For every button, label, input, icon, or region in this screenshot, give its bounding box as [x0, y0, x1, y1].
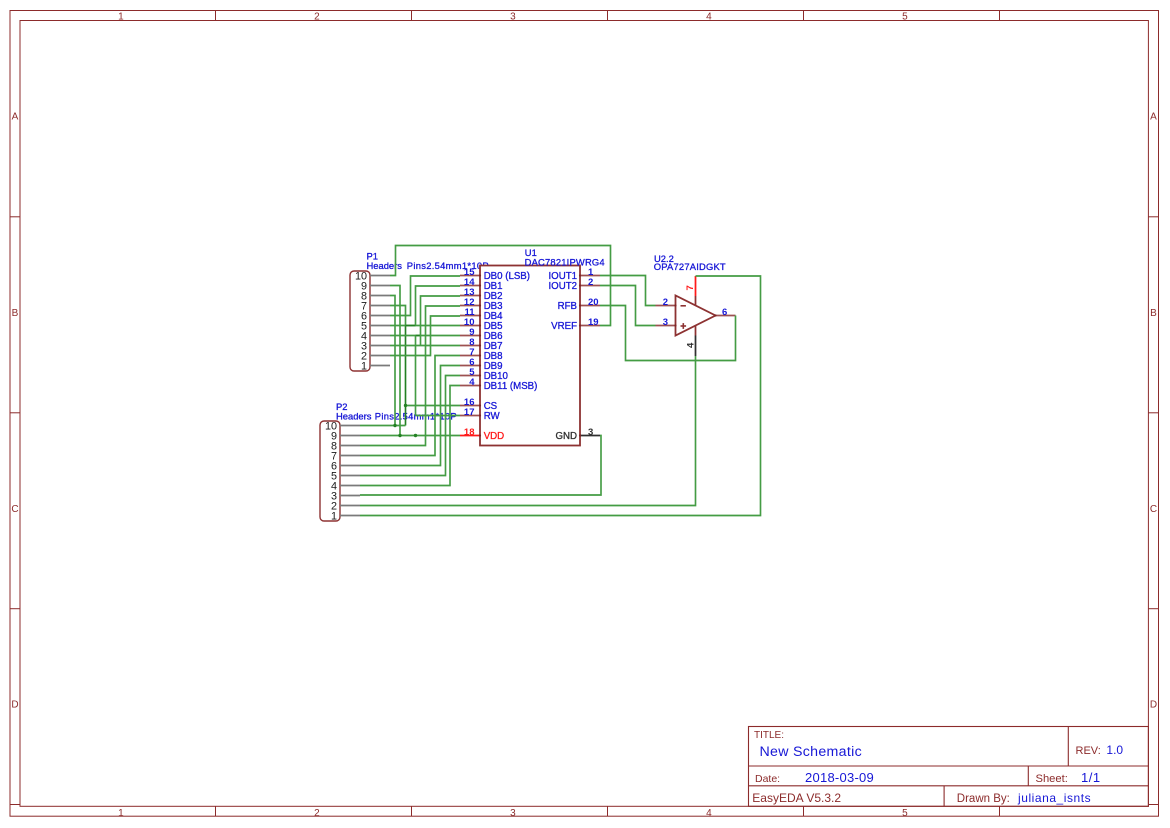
- wire net VREF P1.10 to U1 pin19: [390, 246, 611, 326]
- op-amp pin 4 negative supply: [685, 326, 696, 357]
- svg-text:DB11 (MSB): DB11 (MSB): [484, 381, 538, 392]
- title block REV divider: [1067, 727, 1069, 767]
- svg-text:6: 6: [722, 307, 727, 318]
- op-amp pin 7 positive supply: [685, 276, 696, 306]
- row letters right: [1150, 112, 1157, 711]
- svg-text:7: 7: [685, 285, 696, 290]
- svg-text:Date:: Date:: [755, 773, 780, 785]
- svg-text:REV:: REV:: [1076, 745, 1101, 757]
- U1 pin 3 GND: [555, 427, 600, 442]
- svg-text:Sheet:: Sheet:: [1036, 773, 1068, 785]
- P2 pin 4: [331, 480, 360, 492]
- wire net RW horizontal: [416, 415, 461, 417]
- svg-text:18: 18: [464, 427, 475, 438]
- wire net P1.5 to DB5: [390, 325, 460, 327]
- svg-text:VDD: VDD: [484, 431, 504, 442]
- P1 pin 4: [361, 330, 390, 342]
- P1 pin 7: [361, 300, 390, 312]
- P2 pin 7: [331, 450, 360, 462]
- U1 pin 15 DB0 (LSB): [460, 267, 530, 282]
- U1 pin 10 DB5: [460, 317, 503, 332]
- P1 pin 1: [361, 360, 390, 372]
- column ticks top: [216, 11, 1000, 21]
- op-amp pin 3 non-inverting input: [656, 317, 676, 328]
- svg-text:4: 4: [706, 808, 712, 819]
- svg-text:1: 1: [361, 360, 367, 372]
- wire net P1.4 to DB6: [390, 335, 460, 337]
- P1 pin 8: [361, 290, 390, 302]
- wire net P1.8 column: [390, 296, 395, 426]
- svg-text:2: 2: [588, 277, 593, 288]
- wire net op-amp pin4 supply to P2.2: [360, 356, 696, 506]
- svg-text:19: 19: [588, 317, 599, 328]
- title block outline: [749, 727, 1149, 807]
- svg-text:1: 1: [118, 808, 124, 819]
- svg-text:D: D: [11, 700, 18, 711]
- op-amp U2.2 label: [654, 253, 726, 272]
- svg-text:4: 4: [685, 342, 696, 348]
- U1 pin 7 DB8: [460, 347, 503, 362]
- svg-text:20: 20: [588, 297, 599, 308]
- title block row divider 1: [749, 765, 1149, 767]
- svg-text:3: 3: [588, 427, 593, 438]
- svg-text:GND: GND: [555, 431, 577, 442]
- connector P2 body: [320, 421, 340, 521]
- U1 pin 14 DB1: [460, 277, 503, 292]
- svg-text:1/1: 1/1: [1081, 770, 1101, 785]
- wire net DB3 to P2.8: [360, 306, 460, 446]
- svg-text:3: 3: [510, 808, 516, 819]
- svg-text:IOUT2: IOUT2: [548, 281, 577, 292]
- svg-text:Drawn By:: Drawn By:: [957, 793, 1010, 805]
- op-amp U2.2 triangle: [676, 296, 716, 336]
- svg-text:5: 5: [902, 808, 908, 819]
- svg-text:3: 3: [510, 12, 516, 23]
- P2 pin 3: [331, 490, 360, 502]
- svg-text:2: 2: [314, 808, 320, 819]
- U1 pin 17 RW: [460, 407, 501, 422]
- P1 pin 10: [355, 270, 390, 282]
- svg-text:D: D: [1150, 700, 1157, 711]
- title block DrawnBy divider: [943, 786, 945, 807]
- svg-text:5: 5: [902, 12, 908, 23]
- svg-text:Headers: Headers: [367, 260, 403, 271]
- U1 pin 5 DB10: [460, 367, 509, 382]
- wire net RW column: [415, 336, 417, 416]
- wire net P1.7 to CS column: [390, 306, 406, 326]
- column numbers bottom: [118, 808, 908, 819]
- op-amp pin 6 output: [716, 307, 736, 318]
- wire net P1.9 to VDD rail: [390, 286, 400, 436]
- wire net DB1 branch: [416, 286, 461, 326]
- wire net P1.6 to DB0: [390, 276, 460, 316]
- wire net DB11 to P2.4: [360, 386, 460, 486]
- P2 pin 10: [325, 420, 360, 432]
- svg-text:2: 2: [314, 12, 320, 23]
- svg-text:17: 17: [464, 407, 475, 418]
- svg-text:2: 2: [663, 297, 668, 308]
- svg-text:TITLE:: TITLE:: [754, 730, 784, 741]
- P1 pin 3: [361, 340, 390, 352]
- wire net RFB feedback to pin6: [600, 306, 736, 361]
- wire net DB8 to P2.7: [360, 356, 460, 456]
- op-amp plus input mark: [681, 323, 687, 329]
- wire net op-amp pin7 supply to P2.1: [360, 276, 761, 516]
- title block row divider 2: [749, 785, 1149, 787]
- U1 pin 19 VREF: [551, 317, 600, 332]
- P1 pin 2: [361, 350, 390, 362]
- U1 pin 6 DB9: [460, 357, 503, 372]
- op-amp pin 2 inverting input: [656, 297, 676, 308]
- pin connection dots U1: [479, 274, 581, 436]
- wire net IOUT2 to op-amp pin3: [600, 286, 656, 326]
- row letters left: [11, 112, 18, 711]
- svg-text:1: 1: [331, 510, 337, 522]
- svg-text:RW: RW: [484, 411, 501, 422]
- wire net DB2 branch: [421, 296, 461, 346]
- wire net P2.10 to CS: [360, 425, 406, 427]
- IC U1 body: [480, 266, 580, 446]
- op-amp minus input mark: [681, 305, 686, 307]
- U1 pin 12 DB3: [460, 297, 503, 312]
- U1 pin 2 IOUT2: [548, 277, 600, 292]
- wire net P1.2 to DB4: [390, 316, 460, 356]
- wire overlap DB6 row dark: [416, 335, 422, 337]
- svg-text:A: A: [1150, 112, 1157, 123]
- IC U1 label: [525, 247, 605, 268]
- connector P1 label: [367, 251, 489, 272]
- svg-text:B: B: [1150, 308, 1157, 319]
- svg-text:New Schematic: New Schematic: [760, 744, 862, 760]
- title block Sheet divider: [1027, 766, 1029, 786]
- svg-text:4: 4: [706, 12, 712, 23]
- P1 pin 5: [361, 320, 390, 332]
- svg-text:OPA727AIDGKT: OPA727AIDGKT: [654, 261, 726, 272]
- P2 pin 6: [331, 460, 360, 472]
- P2 pin 1: [331, 510, 360, 522]
- svg-text:4: 4: [469, 377, 475, 388]
- pin connection dots op-amp: [674, 304, 716, 326]
- U1 pin 13 DB2: [460, 287, 503, 302]
- svg-text:EasyEDA V5.3.2: EasyEDA V5.3.2: [752, 791, 841, 805]
- connector P2 label: [336, 401, 457, 422]
- wire net CS horizontal: [406, 405, 461, 407]
- svg-text:B: B: [12, 308, 19, 319]
- svg-text:1.0: 1.0: [1106, 743, 1123, 757]
- wire net VDD row P2.9: [360, 435, 460, 437]
- U1 pin 20 RFB: [558, 297, 600, 312]
- U1 pin 16 CS: [460, 397, 498, 412]
- svg-text:Pins2.54mm1*10P: Pins2.54mm1*10P: [407, 260, 489, 271]
- svg-text:C: C: [1150, 504, 1157, 515]
- wire net DB10 to P2.5: [360, 376, 460, 476]
- wire overlap CS column dark: [405, 326, 407, 426]
- svg-text:juliana_isnts: juliana_isnts: [1017, 791, 1091, 805]
- svg-text:VREF: VREF: [551, 321, 577, 332]
- svg-text:1: 1: [118, 12, 124, 23]
- U1 pin 8 DB7: [460, 337, 503, 352]
- row ticks left: [10, 217, 20, 805]
- svg-text:C: C: [11, 504, 18, 515]
- svg-text:Headers: Headers: [336, 411, 372, 422]
- row ticks right: [1148, 217, 1158, 805]
- wire junction dots: [393, 404, 417, 437]
- P1 pin 6: [361, 310, 390, 322]
- svg-text:2018-03-09: 2018-03-09: [805, 770, 874, 785]
- wire overlap DB5 row dark: [406, 325, 416, 327]
- P2 pin 8: [331, 440, 360, 452]
- U1 pin 4 DB11 (MSB): [460, 377, 537, 392]
- P2 pin 5: [331, 470, 360, 482]
- svg-text:3: 3: [663, 317, 668, 328]
- wire net P1.3 to DB7: [390, 345, 460, 347]
- svg-text:RFB: RFB: [558, 301, 577, 312]
- wire net GND to P2.3: [360, 436, 601, 496]
- column ticks bottom: [216, 806, 1000, 816]
- svg-text:A: A: [12, 112, 19, 123]
- wire net IOUT1 to op-amp pin2: [600, 276, 656, 306]
- U1 pin 1 IOUT1: [548, 267, 600, 282]
- P1 pin 9: [361, 280, 390, 292]
- U1 pin 18 VDD power: [460, 427, 504, 442]
- U1 pin 9 DB6: [460, 327, 503, 342]
- wire net DB9 to P2.6: [360, 366, 460, 466]
- U1 pin 11 DB4: [460, 307, 503, 322]
- P2 pin 2: [331, 500, 360, 512]
- connector P1 body: [350, 271, 370, 371]
- P2 pin 9: [331, 430, 360, 442]
- column numbers top: [118, 12, 908, 23]
